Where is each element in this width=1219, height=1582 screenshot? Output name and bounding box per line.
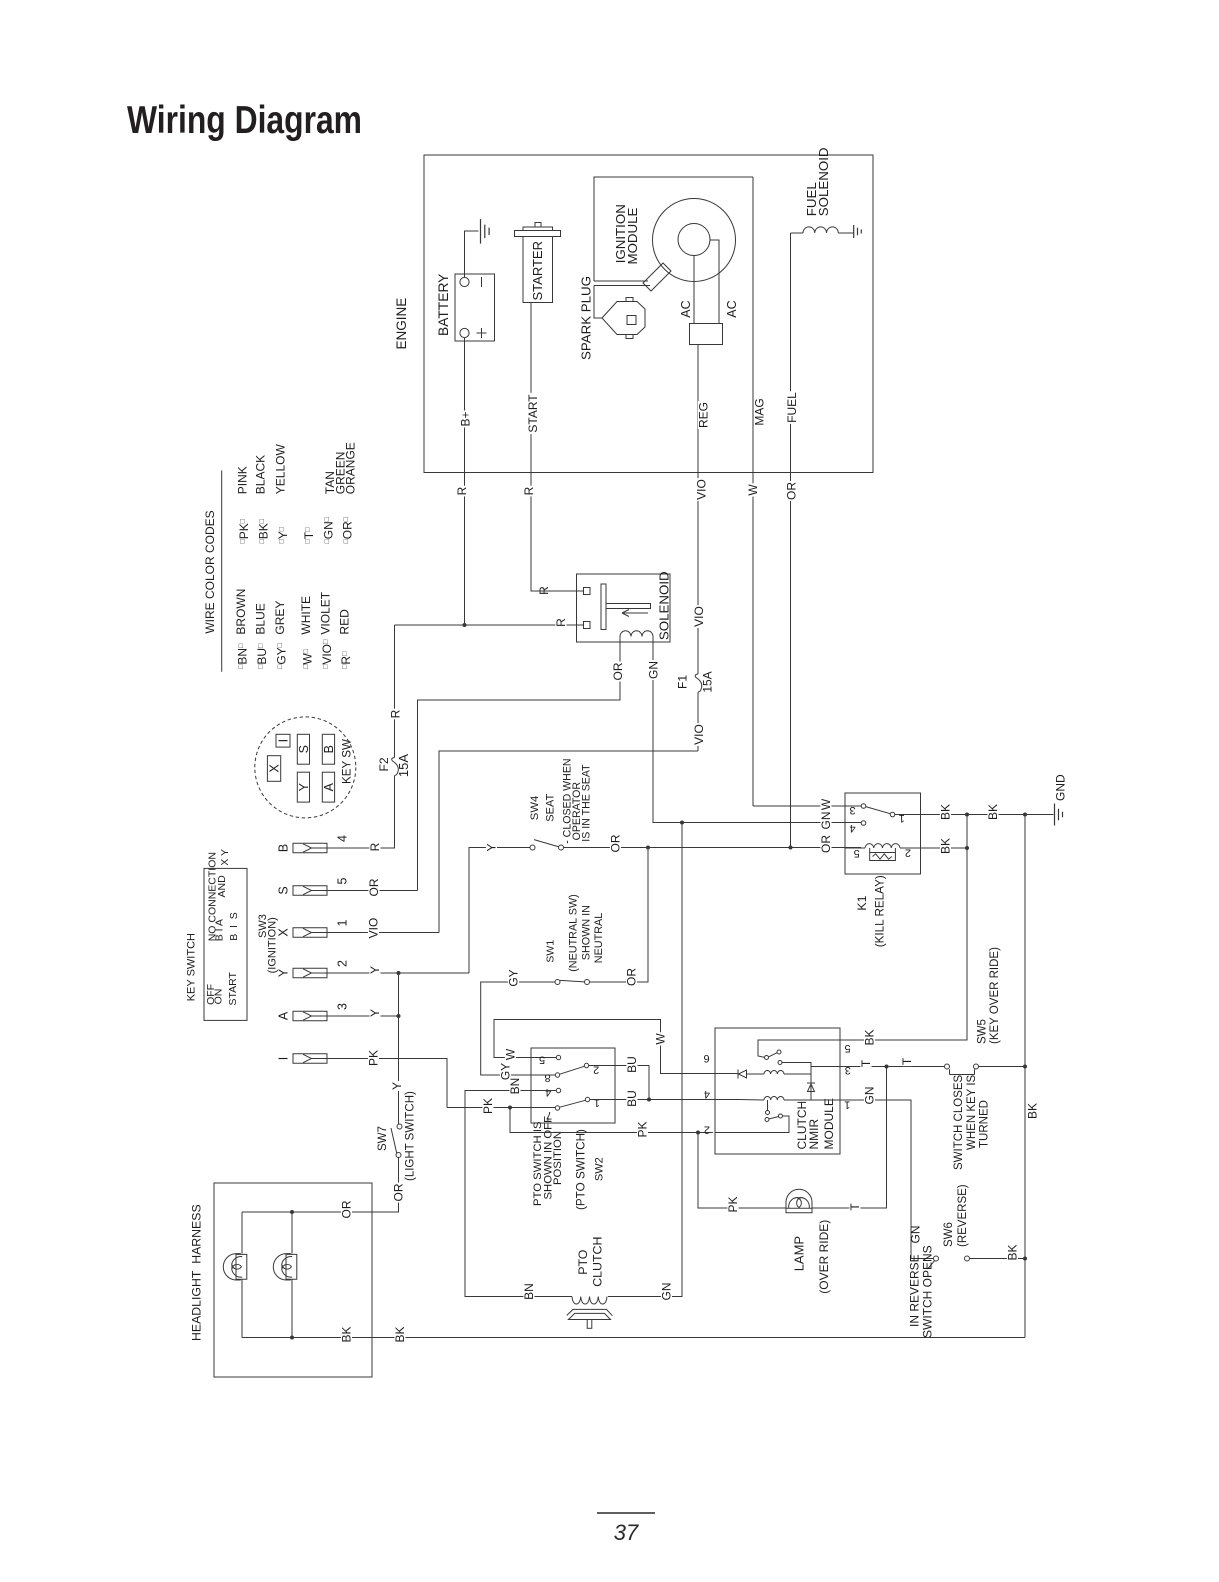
wire headlight1 bottom [241, 1280, 243, 1338]
svg-text:BK: BK [1006, 1244, 1020, 1260]
label BN (pin4) [509, 1077, 520, 1096]
wire battery negative to ground [465, 231, 479, 277]
junction BK node c [965, 846, 969, 850]
svg-text:GN: GN [863, 1087, 877, 1105]
svg-text:□BN□: □BN□ [236, 643, 250, 669]
wire VIO to X terminal [439, 751, 698, 933]
svg-text:SWITCH CLOSES: SWITCH CLOSES [953, 1074, 965, 1170]
svg-text:VIO: VIO [692, 724, 706, 745]
svg-text:(KEY OVER RIDE): (KEY OVER RIDE) [989, 947, 1001, 1044]
junction BK node a [965, 813, 969, 817]
label PK (lamp) [727, 1196, 738, 1214]
label T (sw5) [901, 1057, 912, 1066]
svg-text:3: 3 [336, 1003, 350, 1010]
svg-text:GN: GN [660, 1283, 674, 1301]
svg-text:OR: OR [625, 968, 639, 986]
NMIR switch2 blade [769, 1117, 779, 1120]
K1 resistor [870, 853, 896, 861]
ground (fuel solenoid) [854, 225, 862, 238]
svg-text:(KILL RELAY): (KILL RELAY) [873, 875, 886, 947]
svg-text:T: T [859, 1059, 873, 1067]
svg-text:S: S [297, 745, 311, 753]
svg-text:OR: OR [611, 662, 625, 680]
wire K1 pin5 coil feed [845, 847, 865, 849]
label PK (pin I wire) [368, 1049, 379, 1067]
solenoid coil L3 [620, 631, 653, 637]
svg-text:GN: GN [819, 812, 833, 830]
svg-text:PK: PK [367, 1050, 381, 1066]
svg-text:BN: BN [522, 1283, 536, 1300]
label PK (NMIR pin2) [637, 1121, 648, 1139]
K1 coil [865, 844, 900, 848]
svg-text:SPARK PLUG: SPARK PLUG [579, 276, 594, 360]
svg-text:SWITCH OPENS: SWITCH OPENS [921, 1245, 935, 1338]
svg-text:T: T [900, 1057, 914, 1065]
svg-text:6: 6 [704, 1052, 710, 1064]
label GN (pto clutch) [661, 1282, 672, 1302]
svg-text:TURNED: TURNED [979, 1100, 991, 1148]
label OR (headlight bus) [341, 1200, 352, 1220]
label START [527, 393, 538, 434]
PTO clutch rotor plate [567, 1309, 613, 1315]
label R (F2 top) [390, 709, 401, 720]
wire W into K1 pin3 [753, 805, 861, 807]
junction BK/SW5 node [1023, 1065, 1027, 1069]
svg-text:SW5: SW5 [977, 1019, 989, 1044]
svg-text:CLUTCH: CLUTCH [591, 1237, 605, 1287]
NMIR switch1 common contact [765, 1056, 769, 1060]
wire Y from pin Y [327, 972, 469, 974]
svg-text:NEUTRAL: NEUTRAL [593, 913, 605, 963]
SW6 blade [928, 1261, 935, 1269]
NMIR coil L2 [764, 1097, 784, 1100]
junction BK headlight 2 [290, 1336, 294, 1340]
wire K1 coil through [900, 847, 921, 849]
label W (SW2 pin5) [505, 1048, 516, 1061]
engine box [424, 155, 873, 473]
junction OR/SW1 node [646, 846, 650, 850]
SW4 contact right [559, 845, 564, 850]
starter M1 body [535, 223, 541, 228]
svg-text:4: 4 [850, 822, 856, 834]
wire Y junction vertical to SW7 [398, 973, 400, 1124]
wire BK from SW6 [970, 1258, 1026, 1260]
wire ignition module lead A [594, 280, 648, 282]
svg-text:AC: AC [725, 300, 739, 317]
svg-text:8: 8 [545, 1072, 551, 1084]
svg-text:□T□: □T□ [302, 527, 316, 544]
wire BK from K1 pin1 to ground [895, 814, 1054, 816]
K1 resistor stub left [869, 848, 871, 853]
svg-text:(REVERSE): (REVERSE) [957, 1184, 969, 1247]
fuse F2 15A [392, 758, 399, 776]
label GY (SW1) [508, 968, 519, 987]
wire headlight2 top [291, 1212, 293, 1254]
svg-text:SEAT: SEAT [545, 794, 557, 822]
svg-text:BK: BK [393, 1326, 407, 1342]
wire GN from NMIR pin1 to SW6 [840, 1100, 934, 1259]
svg-text:BK: BK [986, 804, 1000, 820]
svg-text:W: W [504, 1048, 518, 1060]
svg-text:VIOLET: VIOLET [319, 591, 333, 634]
SW1 contact left [555, 980, 560, 985]
label GN (nmir pin1) [864, 1086, 875, 1106]
svg-text:A: A [322, 782, 336, 791]
wire R from pin B to F2 [327, 776, 395, 848]
svg-text:KEY SWITCH: KEY SWITCH [186, 933, 198, 1001]
NMIR switch2 to pin2 [715, 1116, 789, 1133]
K1 blade [866, 807, 891, 814]
svg-text:I: I [277, 739, 291, 742]
connector pin S [293, 886, 327, 896]
NMIR diode D2 [807, 1083, 815, 1092]
label OR (SW4 out) [610, 834, 621, 854]
NMIR pin4 internal to coil2 [739, 1099, 764, 1102]
svg-text:BK: BK [1026, 1103, 1040, 1119]
svg-text:R: R [455, 486, 469, 495]
svg-text:GY: GY [507, 969, 521, 986]
svg-text:GND: GND [1054, 774, 1068, 801]
svg-text:□OR□: □OR□ [341, 516, 355, 543]
svg-text:BU: BU [625, 1090, 639, 1107]
label BK (pin2) [940, 837, 951, 855]
label OR (K1 pin5) [820, 834, 831, 854]
NMIR coil L1 [764, 1071, 784, 1074]
wire REG lead upper [697, 345, 699, 675]
SW5 contact left [945, 1064, 950, 1069]
svg-text:MAG: MAG [753, 398, 767, 425]
solenoid actuation arrow [622, 610, 648, 617]
label Y (pin Y wire) [369, 965, 380, 975]
svg-text:□Y□: □Y□ [276, 526, 290, 543]
wire AC right [710, 240, 719, 324]
svg-text:1: 1 [899, 812, 905, 824]
junction PK node 2 [696, 1131, 700, 1135]
label BK (pin1 a) [940, 803, 951, 821]
key switch terminal X [267, 756, 280, 782]
wire FUEL lead (OR) [790, 233, 792, 848]
svg-text:Wiring Diagram: Wiring Diagram [127, 99, 362, 142]
wire PK to SW2 pin7 [447, 1107, 555, 1109]
svg-text:(LIGHT SWITCH): (LIGHT SWITCH) [405, 1091, 417, 1181]
SW1 contact right [585, 980, 590, 985]
K1 contact pin1 [890, 812, 895, 817]
svg-text:Y: Y [368, 1009, 382, 1017]
connector pin A [293, 1011, 327, 1021]
NMIR pin3 internal wire [811, 1066, 840, 1068]
wire AC left [693, 256, 695, 324]
svg-text:X: X [277, 928, 291, 937]
label OR (pin S wire) [368, 878, 379, 898]
wire R to solenoid upper terminal [531, 590, 584, 592]
wire OR from pin S [327, 890, 418, 892]
NMIR switch2 throw [779, 1114, 783, 1118]
svg-text:5: 5 [336, 877, 350, 884]
NMIR switch1 throw lower [778, 1061, 782, 1065]
NMIR pin6 internal wire [747, 1073, 765, 1075]
svg-text:15A: 15A [701, 671, 715, 692]
K1 contact pin4 [861, 821, 866, 826]
svg-text:HEADLIGHT HARNESS: HEADLIGHT HARNESS [190, 1204, 204, 1341]
junction Y node pin A [397, 1014, 401, 1018]
NMIR throw to pin3 wire [782, 1063, 811, 1067]
NMIR switch2 contact b [765, 1118, 769, 1122]
label GN (K1 pin4) [820, 811, 831, 831]
wire GY from SW1 to SW2 pin 8 [481, 982, 556, 1075]
SW5 bridge [950, 1069, 975, 1074]
svg-text:Y: Y [368, 966, 382, 974]
PTO clutch shaft [587, 1320, 592, 1329]
svg-text:GN: GN [909, 1226, 923, 1244]
svg-text:OR: OR [609, 834, 623, 852]
solenoid terminal upper [584, 588, 591, 595]
svg-text:3: 3 [845, 1064, 851, 1076]
wire OR solenoid coil to S terminal [418, 637, 621, 891]
solenoid box [577, 574, 671, 642]
junction OR/FUEL node [789, 846, 793, 850]
headlight bulb 2 [273, 1254, 297, 1280]
SW4 contact left [530, 845, 535, 850]
svg-text:PK: PK [636, 1121, 650, 1137]
svg-text:B: B [322, 745, 336, 753]
svg-text:OR: OR [784, 482, 798, 500]
label BK (NMIR pin5) [864, 1029, 875, 1047]
svg-text:X Y: X Y [219, 849, 231, 866]
svg-text:5: 5 [845, 1042, 851, 1054]
wire R to solenoid lower terminal [395, 624, 584, 626]
label Y (SW4) [486, 843, 497, 853]
svg-text:PTO: PTO [576, 1249, 590, 1275]
svg-text:2: 2 [336, 960, 350, 967]
SW6 contact right [965, 1256, 970, 1261]
headlight bulb 1 [223, 1254, 247, 1280]
svg-text:B: B [277, 844, 291, 852]
wire BK bus [242, 1337, 1025, 1339]
connector pin X [293, 928, 327, 938]
svg-text:BK: BK [939, 838, 953, 854]
svg-text:W: W [746, 484, 760, 496]
solenoid plunger contact [601, 584, 606, 630]
battery B1 body [455, 274, 495, 341]
svg-text:ORANGE: ORANGE [344, 442, 358, 494]
svg-text:BLUE: BLUE [253, 603, 267, 634]
label PK (SW2 pin7) [482, 1097, 493, 1115]
label BK (bus outside box) [394, 1326, 405, 1344]
headlight harness box [214, 1183, 372, 1377]
wire W to SW2 pin5 and NMIR pin6 [494, 1020, 738, 1074]
NMIR diode D1 [738, 1070, 747, 1079]
connector pin Y [293, 968, 327, 978]
svg-text:OR: OR [367, 878, 381, 896]
junction BK node b [1023, 813, 1027, 817]
wire ignition module lead B [594, 285, 650, 287]
wire fuel solenoid coil to FUEL lead [791, 232, 804, 234]
svg-text:SW6: SW6 [943, 1222, 955, 1247]
label R (B+ lead) [456, 486, 467, 497]
svg-text:WIRE COLOR CODES: WIRE COLOR CODES [203, 510, 217, 633]
wire PK branch to NMIR pin2 [510, 1108, 713, 1133]
label REG [698, 401, 709, 429]
key switch terminal A [322, 772, 334, 802]
SW4 blade [534, 840, 559, 847]
svg-text:(OVER RIDE): (OVER RIDE) [817, 1220, 831, 1294]
svg-text:YELLOW: YELLOW [274, 444, 288, 495]
svg-text:A: A [277, 1011, 291, 1020]
wire VIO from pin X [327, 932, 439, 934]
svg-text:2: 2 [704, 1123, 710, 1135]
svg-text:VIO: VIO [692, 606, 706, 627]
spark plug symbol [602, 298, 645, 339]
label R (start at solenoid) [538, 585, 549, 596]
svg-text:□GN□: □GN□ [322, 516, 336, 543]
flywheel outer circle [653, 199, 736, 282]
svg-text:SW4: SW4 [529, 796, 541, 820]
wire OR from SW4 to K1 pin 5 [564, 847, 862, 849]
NMIR coil2 to pin1 [784, 1099, 840, 1101]
svg-text:(IGNITION): (IGNITION) [266, 917, 278, 973]
svg-text:WHITE: WHITE [299, 596, 313, 635]
label T (lamp) [849, 1202, 860, 1211]
svg-text:BATTERY: BATTERY [436, 274, 451, 336]
junction Y node pin Y [397, 971, 401, 975]
svg-text:ENGINE: ENGINE [394, 298, 409, 350]
battery terminal positive [460, 328, 469, 337]
wire START lead [531, 303, 584, 592]
svg-text:□GY□: □GY□ [274, 642, 288, 669]
svg-text:Y: Y [297, 782, 311, 791]
SW2 contact pin 7 [555, 1106, 559, 1110]
svg-text:W: W [654, 1033, 668, 1045]
svg-text:IN REVERSE: IN REVERSE [908, 1254, 922, 1327]
svg-text:STARTER: STARTER [530, 241, 545, 300]
wire BU SW2 pin2 [589, 1066, 649, 1100]
key switch terminal I [276, 734, 290, 747]
label FUEL (lead) [786, 391, 797, 424]
battery terminal negative [460, 277, 469, 286]
wire BK vertical to NMIR pin5 [840, 815, 967, 1041]
label BK (sw6) [1007, 1244, 1018, 1262]
svg-text:1: 1 [594, 1096, 600, 1108]
wire MAG lead (W) [752, 177, 754, 806]
svg-text:SW7: SW7 [377, 1126, 389, 1151]
svg-text:5: 5 [854, 847, 860, 859]
svg-text:PK: PK [481, 1098, 495, 1114]
svg-text:K1: K1 [855, 895, 869, 910]
wire T branch to lamp [812, 1067, 886, 1209]
SW6 contact left [934, 1256, 939, 1261]
battery plus sign [477, 328, 487, 338]
svg-text:R: R [389, 709, 403, 718]
NMIR switch1 blade [769, 1053, 778, 1057]
svg-text:S: S [277, 886, 291, 894]
wire headlight1 top [241, 1212, 243, 1254]
label BN (pto clutch) [523, 1282, 534, 1301]
svg-text:□VIO□: □VIO□ [320, 639, 334, 669]
label W (K1 pin3) [820, 798, 831, 811]
label Y (pin A wire) [369, 1008, 380, 1018]
svg-text:15A: 15A [396, 754, 411, 777]
label GN (solenoid) [648, 660, 659, 680]
label T (nmir) [860, 1059, 871, 1068]
K1 contact pin3 [861, 804, 866, 809]
svg-text:4: 4 [336, 835, 350, 842]
svg-text:4: 4 [704, 1088, 710, 1100]
label W (NMIR) [655, 1032, 666, 1045]
svg-text:R: R [537, 586, 551, 595]
svg-text:SHOWN IN: SHOWN IN [581, 905, 593, 960]
junction PK node 1 [508, 1106, 512, 1110]
svg-text:OR: OR [340, 1200, 354, 1218]
svg-text:Y: Y [277, 968, 291, 977]
svg-text:START: START [227, 971, 239, 1005]
svg-text:R: R [554, 618, 568, 627]
SW2 blade 8-2 [560, 1066, 585, 1074]
wire PK from pin I [327, 1059, 447, 1108]
SW7 blade [391, 1128, 397, 1153]
label R (solenoid lower) [555, 617, 566, 628]
wire from SW5 to BK vertical [979, 1066, 1026, 1068]
lamp (over ride) bulb [786, 1189, 812, 1213]
svg-text:BK: BK [939, 804, 953, 820]
SW2 contact pin 4 [556, 1088, 560, 1092]
ignition module pickup [643, 263, 671, 291]
label GY (SW2 pin8) [500, 1062, 511, 1081]
svg-text:F1: F1 [676, 675, 690, 689]
svg-text:B+: B+ [459, 411, 473, 426]
footer rule [597, 1512, 655, 1514]
fuel solenoid coil L2 [803, 227, 838, 233]
connector pin B [293, 843, 327, 853]
wire B+ lead [464, 338, 466, 626]
legend rule [221, 470, 223, 671]
label BU (pin2) [626, 1055, 637, 1074]
svg-text:Y: Y [390, 1082, 404, 1090]
svg-text:WHEN KEY IS: WHEN KEY IS [966, 1074, 978, 1150]
svg-text:PINK: PINK [235, 466, 249, 494]
SW2 contact pin 1 [585, 1097, 589, 1101]
SW1 blade [560, 980, 585, 982]
K1 resistor stub right [894, 848, 896, 853]
SW7 contact upper [397, 1124, 402, 1129]
PTO clutch armature [568, 1313, 610, 1319]
svg-text:AND: AND [216, 875, 228, 898]
connector pin I [293, 1054, 327, 1064]
wire fuel solenoid to ground [838, 232, 853, 234]
svg-text:REG: REG [697, 402, 711, 428]
wire GN branch to PTO clutch [608, 823, 682, 1297]
junction B+/R node [463, 623, 467, 627]
ignition coil housing box [594, 177, 753, 281]
label OR (fuel lead) [786, 481, 797, 501]
svg-text:5: 5 [539, 1053, 545, 1065]
svg-text:BK: BK [340, 1326, 354, 1342]
SW7 contact lower [396, 1153, 401, 1158]
svg-text:BLACK: BLACK [254, 455, 268, 494]
battery minus sign [481, 277, 483, 287]
ground GND (main) [1055, 804, 1063, 826]
svg-text:B I S: B I S [228, 912, 240, 941]
svg-text:37: 37 [614, 1520, 639, 1545]
svg-text:(NEUTRAL SW): (NEUTRAL SW) [568, 894, 580, 972]
svg-text:LAMP: LAMP [792, 1236, 807, 1271]
key switch connector circle [255, 717, 356, 818]
wire REG lead lower [697, 692, 699, 751]
NMIR switch1 throw upper [777, 1050, 781, 1054]
svg-text:(PTO SWITCH): (PTO SWITCH) [575, 1129, 588, 1210]
stator rectifier block [690, 324, 723, 345]
svg-text:ON: ON [212, 989, 224, 1005]
svg-text:□BU□: □BU□ [255, 643, 269, 669]
